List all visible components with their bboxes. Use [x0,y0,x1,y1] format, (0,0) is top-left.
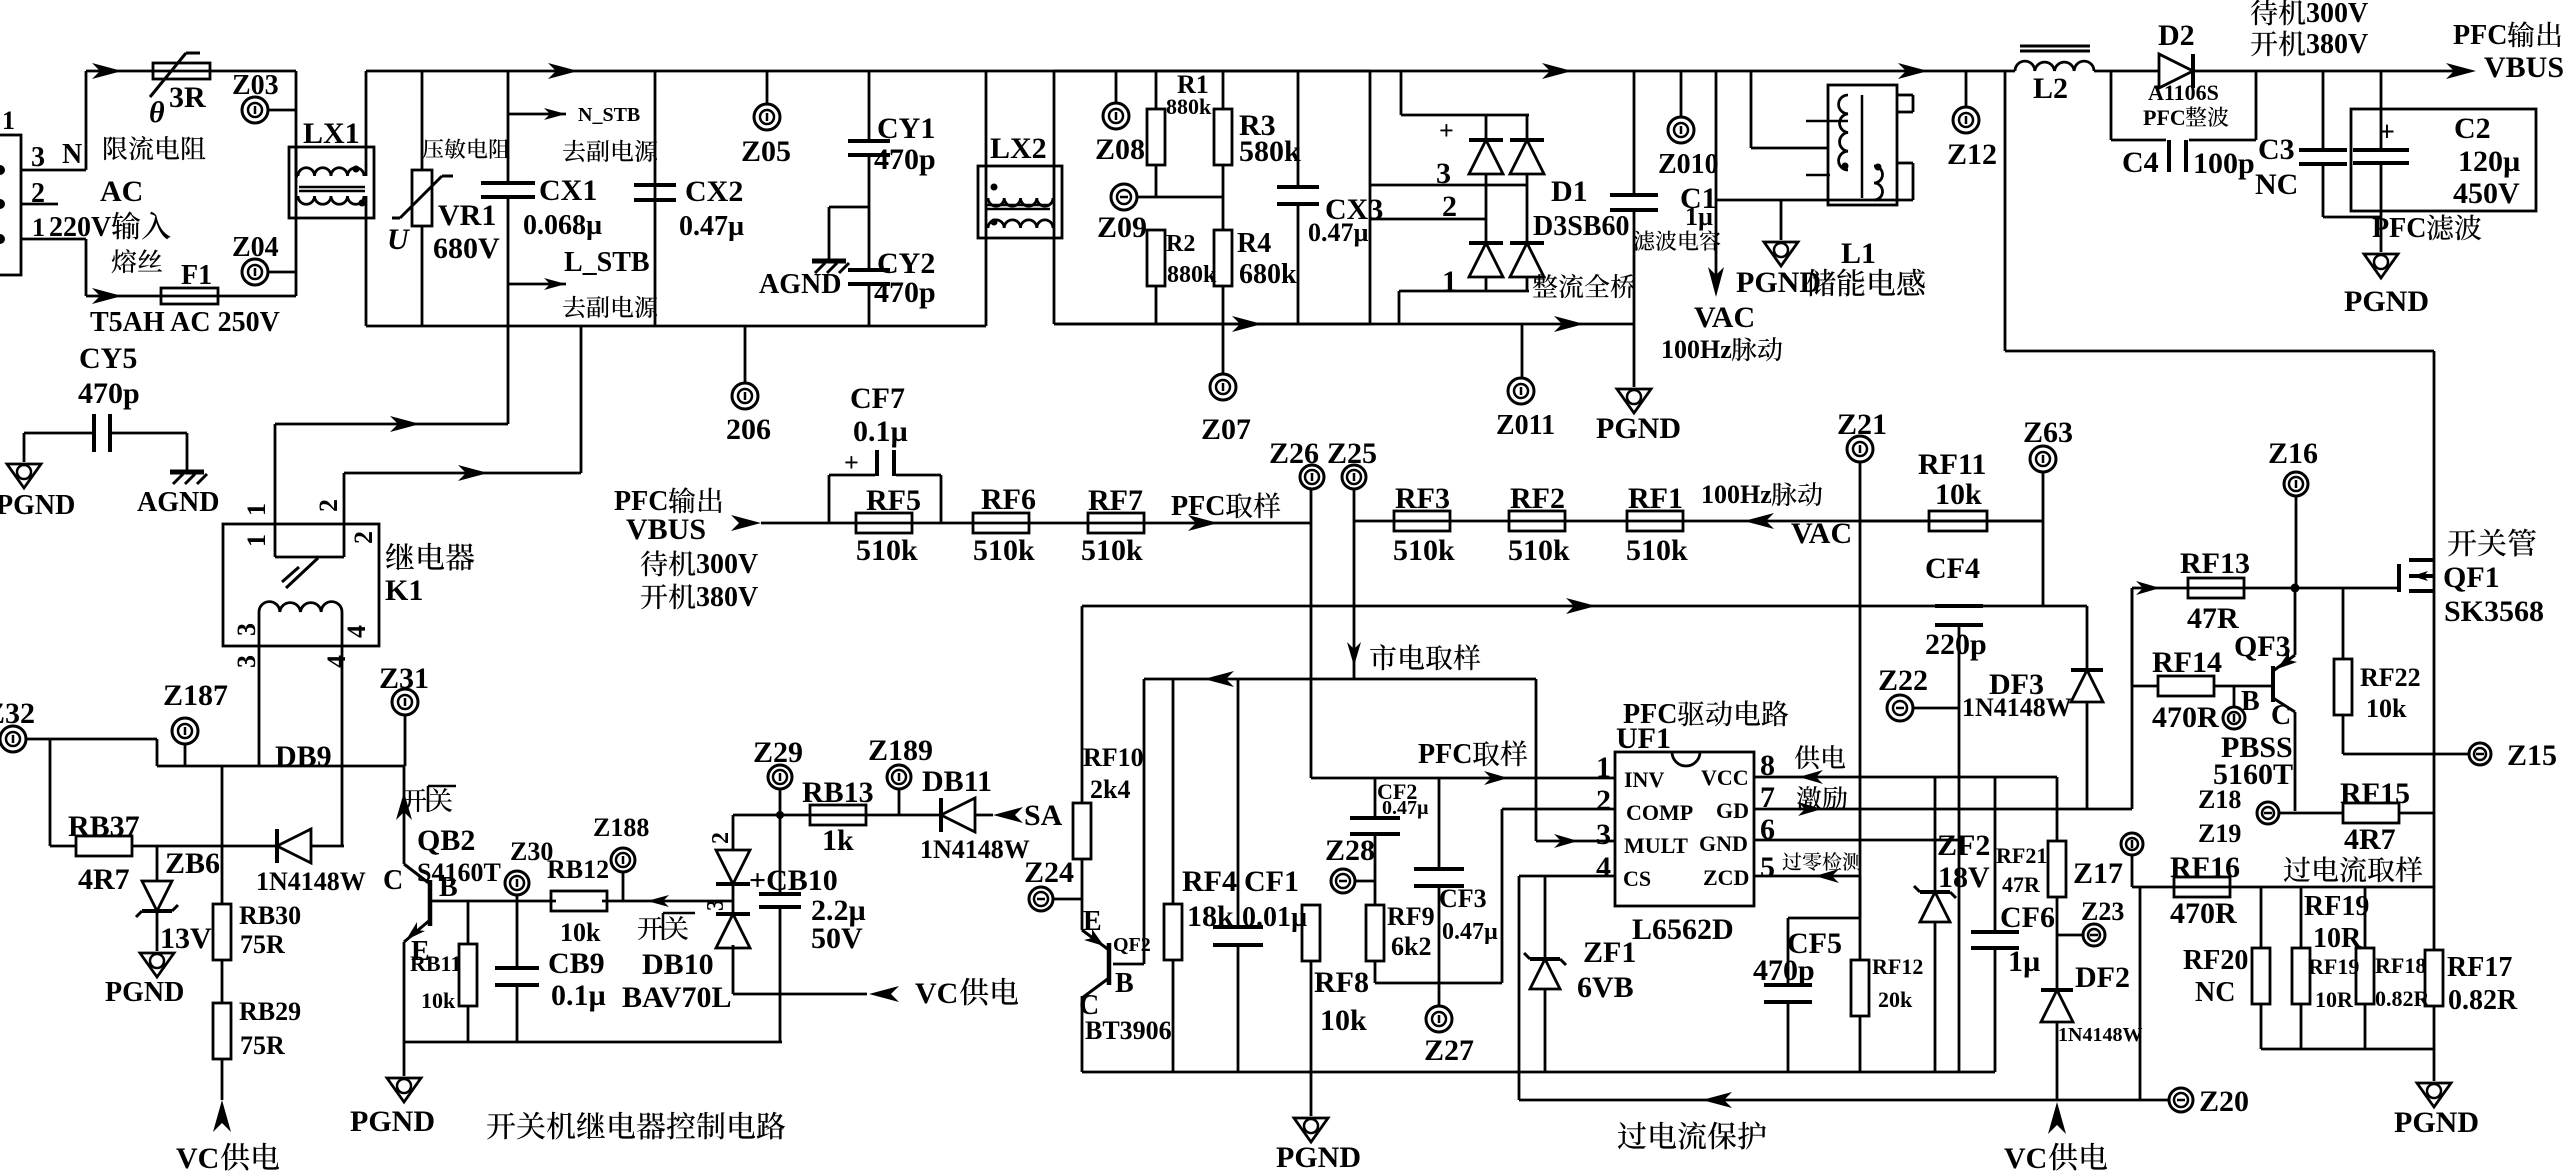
label 过电流取样 [2284,857,2310,882]
svg-text:ZF1: ZF1 [1583,936,1636,969]
svg-text:L_STB: L_STB [564,247,650,278]
terminal Z08 [1115,71,1118,103]
bridge diode bottom-left [1469,243,1503,277]
terminal Z07 [1222,324,1225,374]
svg-text:Z04: Z04 [232,232,279,263]
svg-text:MULT: MULT [1624,833,1688,858]
terminal Z27 [1426,1006,1452,1032]
cap CF6 [1994,777,1997,932]
R divider box [1054,323,1370,326]
cap CF7 bypass [828,475,831,523]
QF1 drain feed line [2004,71,2007,351]
bottom rail to filter box [366,325,655,328]
bridge diode top-left [1469,140,1503,174]
svg-text:0.47µ: 0.47µ [679,211,744,242]
svg-text:10R: 10R [2315,987,2354,1012]
pin7 GD line 激励 [1754,808,2132,811]
main top rail [655,70,1370,73]
label PFC取样 [1188,515,1218,531]
svg-text:VCC: VCC [1701,765,1749,790]
base line QB2 [430,900,556,903]
svg-text:4R7: 4R7 [78,863,130,896]
svg-text:Z010: Z010 [1658,149,1719,180]
svg-text:DB10: DB10 [642,948,714,981]
resistor RB12 [551,891,607,911]
svg-text:VC: VC [176,1142,219,1175]
ground AGND CY5 [186,433,189,470]
column RF10/QF2 [1081,606,1084,803]
svg-text:K1: K1 [385,574,423,607]
X-cap CX3 [1297,71,1300,187]
svg-text:AGND: AGND [759,269,841,300]
svg-text:R2: R2 [1166,231,1195,257]
svg-text:2: 2 [1442,190,1457,223]
svg-text:AC: AC [100,175,143,208]
wire relay pin3 [258,646,261,766]
svg-text:Z12: Z12 [1947,138,1997,171]
svg-text:20k: 20k [1878,987,1913,1012]
svg-text:3: 3 [31,142,45,173]
svg-text:VC: VC [915,977,958,1010]
Y-cap CY1 [868,71,871,141]
terminal Z05 [766,71,769,104]
rail to bridge [1370,70,1716,73]
ground PGND output [2364,254,2398,278]
svg-text:1N4148W: 1N4148W [1962,693,2072,722]
ground PGND RF8 [1310,1072,1313,1116]
bus LX2 left [985,71,988,326]
L1 bottom wire [1716,199,1913,202]
mains sample line 市电取样 [1144,678,1536,681]
svg-text:RF6: RF6 [981,483,1036,516]
svg-text:RB13: RB13 [802,776,874,809]
svg-text:6k2: 6k2 [1391,932,1431,961]
resistor RF22 [2342,588,2345,659]
bottom rail QB2 [404,1041,782,1044]
relay contact pin1 [274,424,277,557]
ground PGND sense [2433,1049,2436,1081]
svg-text:470R: 470R [2152,701,2219,734]
svg-text:0.47µ: 0.47µ [1442,919,1498,945]
terminal Z010 [1680,71,1683,117]
svg-text:RF17: RF17 [2447,952,2512,983]
ground PGND at L1 [1780,200,1783,240]
svg-text:4: 4 [322,655,351,668]
svg-text:QF2: QF2 [1113,934,1151,956]
svg-text:CX1: CX1 [539,174,597,207]
svg-text:3: 3 [1596,818,1611,851]
svg-text:100p: 100p [2193,147,2255,180]
svg-text:+: + [2379,117,2395,148]
svg-text:LX2: LX2 [990,132,1047,165]
relay pin2 wire [343,473,346,557]
svg-text:PFC: PFC [2143,105,2186,130]
svg-text:RB11: RB11 [410,951,461,976]
svg-text:Z19: Z19 [2198,819,2241,848]
bridge diode top-right [1510,140,1544,174]
svg-text:VAC: VAC [1694,301,1755,334]
svg-text:PFC: PFC [1171,491,1225,522]
cap CY5 [24,432,94,435]
svg-text:RF5: RF5 [866,484,921,517]
ground PGND QB2 [403,1042,406,1076]
wire pin1 to filter [275,423,508,426]
column Z21 lower / ZCD network [1859,606,1862,918]
svg-text:47R: 47R [2002,872,2041,897]
svg-text:RF16: RF16 [2170,851,2240,884]
X-cap CX1 [507,71,510,183]
filter box outline [654,71,657,326]
terminal Z20 [2140,1099,2169,1102]
svg-text:300V: 300V [696,549,758,580]
svg-text:ZF2: ZF2 [1937,829,1990,862]
svg-text:GND: GND [1699,831,1748,856]
svg-text:680V: 680V [433,232,500,265]
svg-text:470p: 470p [874,276,936,309]
common-mode choke LX1 [289,147,374,218]
svg-text:N_STB: N_STB [578,104,640,126]
resistor R4 [1222,197,1225,229]
svg-text:VR1: VR1 [438,199,496,232]
svg-text:RF10: RF10 [1083,743,1144,772]
svg-text:CF1: CF1 [1244,865,1299,898]
svg-text:10k: 10k [560,918,601,947]
svg-text:AGND: AGND [137,487,219,518]
CS line [1519,875,1615,878]
svg-text:PFC: PFC [1418,739,1472,770]
svg-text:CY5: CY5 [79,342,137,375]
svg-text:Z63: Z63 [2023,416,2073,449]
zener ZF2 [1934,777,1937,892]
cap CF3 [1438,778,1441,869]
svg-text:220V: 220V [49,212,111,243]
svg-text:3R: 3R [169,81,206,114]
svg-text:PGND: PGND [2394,1106,2479,1139]
svg-text:1: 1 [1442,265,1457,298]
svg-text:RF9: RF9 [1387,902,1435,931]
svg-text:380V: 380V [2306,29,2368,60]
svg-text:LX1: LX1 [303,117,360,150]
net VC供电 DB10 [733,993,867,996]
svg-text:50V: 50V [811,922,863,955]
resistor RF4 [1172,679,1175,904]
ground PGND under C1 [1633,323,1636,387]
bridge diode bottom-right [1510,243,1544,277]
cap C4 snubber [2110,71,2113,140]
svg-text:CF6: CF6 [2000,901,2055,934]
svg-text:RF7: RF7 [1088,484,1143,517]
diode DF2 1N4148W [2041,990,2073,1022]
terminal Z15 [2343,753,2469,756]
resistor RF21 [2048,841,2066,897]
wire to MULT [1535,679,1538,841]
wire Z63 column [2042,521,2045,606]
label 储能电感 [1807,269,1836,297]
svg-text:Z20: Z20 [2199,1085,2249,1118]
resistor RF9 [1366,905,1384,961]
svg-text:RF1: RF1 [1628,482,1683,515]
node gate junction [2291,584,2300,593]
resistor RF18 [2364,887,2367,948]
bridge bottom edge pin1 [1399,290,1529,293]
svg-text:RF12: RF12 [1872,954,1923,979]
wire pin1 [21,238,86,241]
svg-text:0.01µ: 0.01µ [1242,902,1307,933]
relay contact [275,556,344,559]
svg-text:NC: NC [2195,977,2235,1008]
svg-text:QB2: QB2 [417,824,475,857]
MOSFET QF1 SK3568 [2397,564,2401,592]
right bus from LX1 [365,71,368,176]
resistor R3 [1222,71,1225,109]
label 继电器 K1 [386,543,414,570]
svg-text:0.47µ: 0.47µ [1382,797,1429,819]
transistor QB2 S4160T [403,766,406,864]
svg-text:13V: 13V [160,922,212,955]
net N_STB [508,113,566,116]
svg-text:C: C [2271,700,2291,731]
svg-text:θ: θ [149,96,165,129]
bulk cap C2 [2380,71,2383,150]
svg-text:Z23: Z23 [2081,897,2124,926]
fuse F1 [86,295,296,298]
top rail with arrow [86,70,296,73]
svg-text:100Hz: 100Hz [1661,335,1732,364]
resistor RF6 [973,513,1029,533]
svg-text:1µ: 1µ [1685,202,1713,231]
svg-text:Z28: Z28 [1325,834,1375,867]
svg-text:SA: SA [1024,799,1063,832]
INV feedback top line [1082,605,2087,608]
svg-text:F1: F1 [181,260,212,291]
VAC sampling line [1354,520,2043,523]
svg-text:1: 1 [2,106,15,135]
svg-text:0.068µ: 0.068µ [523,210,602,241]
svg-text:RB12: RB12 [547,855,609,884]
sense bottom line [2261,1048,2434,1051]
svg-text:DB9: DB9 [275,740,332,773]
svg-text:PGND: PGND [2344,285,2429,318]
cap CF5 [1788,917,1860,920]
svg-text:0.1µ: 0.1µ [853,415,908,448]
svg-text:CF3: CF3 [1439,884,1487,913]
ground PGND CY5 [23,433,26,462]
svg-text:2k4: 2k4 [1090,775,1130,804]
svg-text:Z27: Z27 [1424,1034,1474,1067]
svg-text:VBUS: VBUS [2484,51,2564,84]
svg-text:PGND: PGND [0,490,75,521]
svg-text:ZCD: ZCD [1703,865,1749,890]
L1 right taps [1897,94,1913,97]
svg-text:PFC: PFC [2453,20,2507,51]
svg-text:Z189: Z189 [868,734,933,767]
resistor RF7 [1088,513,1144,533]
svg-text:CF4: CF4 [1925,552,1980,585]
svg-text:RF22: RF22 [2360,663,2421,692]
svg-text:10k: 10k [421,988,456,1013]
svg-text:L2: L2 [2033,72,2068,105]
inductor L1 [1828,85,1897,205]
svg-text:L6562D: L6562D [1632,913,1734,946]
svg-text:INV: INV [1624,767,1664,792]
svg-text:1N4148W: 1N4148W [920,835,1030,864]
GD riser [2131,588,2134,809]
svg-text:4: 4 [1596,851,1611,884]
Y-cap CY2 [868,155,871,270]
terminal Z22 [1887,695,1913,721]
transistor QF2 BT3906 [1143,679,1146,964]
diode DB9 1N4148W [277,829,311,863]
label 熔丝 [112,249,137,273]
bridge input 2 [1370,218,1486,221]
resistor RF3 [1394,511,1450,531]
svg-text:RB37: RB37 [68,810,140,843]
wire Z25 to mains sample [1353,489,1356,679]
net VAC 100Hz [1715,71,1718,278]
svg-text:Z32: Z32 [0,697,35,730]
branch to RB37 [49,739,52,846]
svg-text:Z188: Z188 [593,813,649,842]
svg-text:PFC: PFC [2372,213,2426,244]
svg-text:CF7: CF7 [850,382,905,415]
svg-text:RF2: RF2 [1510,482,1565,515]
svg-text:880k: 880k [1167,262,1217,288]
dual diode DB10 BAV70L [732,815,735,851]
resistor RF1 [1627,511,1683,531]
label 待机300V [2251,0,2277,25]
label 整流全桥 [1533,274,1558,297]
svg-text:+: + [1439,116,1454,145]
svg-text:CB9: CB9 [548,947,605,980]
resistor RF5 [856,513,912,533]
svg-text:380V: 380V [696,582,758,613]
svg-text:Z24: Z24 [1024,856,1074,889]
terminal 206 [744,326,747,383]
svg-text:206: 206 [726,413,771,446]
resistor RF19 [2300,887,2303,948]
svg-text:RF4: RF4 [1182,865,1237,898]
svg-text:PGND: PGND [105,977,184,1008]
resistor RF20 [2260,887,2263,948]
node DB9 line [156,739,159,766]
bridge rectifier D1 outline [1400,71,1403,115]
svg-text:RF3: RF3 [1395,482,1450,515]
transistor QF3 PBSS5160T [2294,588,2297,655]
bulk cap C2 box [2351,109,2536,211]
label 开关 at DB10 [638,917,662,940]
svg-text:1N4148W: 1N4148W [2058,1024,2142,1046]
svg-text:PFC: PFC [1623,699,1677,730]
output VBUS arrow [2446,63,2476,79]
svg-text:ZB6: ZB6 [165,847,220,880]
svg-text:Z05: Z05 [741,135,791,168]
resistor RB30 [221,766,224,904]
label 滤波电容 [1634,230,1655,250]
net VC供电 left [221,1060,224,1100]
svg-text:75R: 75R [240,1031,285,1060]
svg-text:470p: 470p [1753,954,1815,987]
sense line to CS [2139,887,2142,1100]
bottom return line [1054,323,1634,326]
rail LX1 to filter box [366,70,655,73]
resistor RB11 [467,901,470,944]
svg-text:18V: 18V [1938,861,1990,894]
label 去副电源 top [563,140,585,162]
svg-text:Z011: Z011 [1496,410,1555,441]
svg-text:470p: 470p [78,377,140,410]
label 去副电源 bottom [563,296,585,318]
svg-text:510k: 510k [1626,534,1688,567]
resistor RB13 [810,805,866,825]
svg-text:300V: 300V [2306,0,2368,29]
svg-text:RF15: RF15 [2340,777,2410,810]
svg-text:0.82R: 0.82R [2448,985,2518,1016]
svg-text:L1: L1 [1841,237,1876,270]
resistor RF2 [1509,511,1565,531]
svg-text:+: + [844,448,859,477]
bridge input 3 [1370,184,1527,187]
svg-text:1: 1 [242,503,271,516]
svg-text:S4160T: S4160T [417,858,501,887]
svg-text:E: E [1083,906,1102,937]
svg-text:VC: VC [2004,1142,2047,1175]
svg-text:RF19: RF19 [2304,891,2369,922]
svg-text:PGND: PGND [350,1105,435,1138]
terminal Z04 [242,259,268,285]
left bus N [295,71,298,296]
diode DB11 1N4148W [899,814,941,817]
svg-text:RF18: RF18 [2375,953,2426,978]
resistor RF16 [2174,877,2230,897]
svg-text:510k: 510k [973,534,1035,567]
svg-text:RF11: RF11 [1918,448,1986,481]
svg-text:0.47µ: 0.47µ [1308,218,1369,247]
diode DF3 1N4148W [2086,606,2089,670]
resistor RB29 [221,961,224,1003]
svg-text:A1106S: A1106S [2148,80,2219,105]
svg-text:BAV70L: BAV70L [622,981,731,1014]
svg-text:880k: 880k [1166,94,1212,119]
svg-text:VAC: VAC [1791,517,1852,550]
terminal Z09 [1111,184,1137,210]
svg-text:6VB: 6VB [1577,971,1634,1004]
zener ZF1 [1544,876,1547,959]
svg-text:B: B [1115,968,1134,999]
label 开关 switch [402,789,426,812]
resistor RF15 [2279,812,2342,815]
svg-text:680k: 680k [1239,259,1297,290]
wire pin2 to filter [344,472,581,475]
svg-text:510k: 510k [1081,534,1143,567]
cap C3 (NC) [2322,71,2325,150]
svg-text:DF2: DF2 [2075,961,2130,994]
svg-text:CX2: CX2 [685,175,743,208]
net L_STB [508,283,566,286]
cap CB9 [516,901,519,968]
ground PGND ZB6 [140,953,174,977]
svg-text:RF13: RF13 [2180,547,2250,580]
svg-text:RF20: RF20 [2183,945,2248,976]
svg-text:COMP: COMP [1626,800,1693,825]
resistor RF12 [1859,918,1862,960]
svg-text:220p: 220p [1925,628,1987,661]
svg-text:D3SB60: D3SB60 [1533,211,1629,242]
resistor RF14 [2131,588,2134,686]
svg-text:0.82R: 0.82R [2375,986,2431,1011]
svg-text:RF8: RF8 [1314,966,1369,999]
svg-text:T5AH AC 250V: T5AH AC 250V [90,307,280,338]
terminal Z011 [1521,324,1524,378]
